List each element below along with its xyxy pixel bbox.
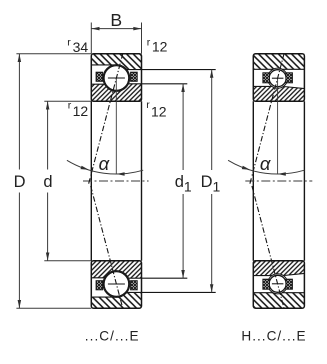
svg-text:12: 12 bbox=[152, 39, 168, 55]
right bearing inner ring top (hatched) bbox=[253, 86, 304, 101]
alpha angle arc left with arrows bbox=[67, 160, 143, 174]
alpha angle arc right with arrows bbox=[228, 160, 304, 174]
right cage top-right bbox=[286, 73, 293, 83]
right bearing inner ring bottom (hatched) bbox=[253, 261, 304, 276]
cage bottom-right bbox=[131, 281, 138, 290]
left top outer-ring bore lines bbox=[91, 65, 215, 70]
left bearing axis centerline bbox=[83, 180, 149, 182]
d1 dimension line bbox=[182, 84, 184, 278]
cage top-right bbox=[131, 72, 138, 81]
left top inner-ring shoulder lines bbox=[91, 83, 187, 85]
d dimension line bbox=[47, 101, 49, 260]
svg-text:...C/...E: ...C/...E bbox=[85, 328, 140, 343]
svg-text:r: r bbox=[147, 36, 151, 48]
svg-text:α: α bbox=[260, 153, 271, 174]
d extension lines bbox=[44, 101, 91, 260]
left top raceway groove bbox=[103, 65, 130, 92]
D dimension line bbox=[18, 54, 20, 308]
contact angle line right top bbox=[252, 53, 284, 176]
left bottom raceway groove bbox=[103, 271, 130, 298]
left bearing bore / OD silhouette walls bbox=[91, 101, 141, 260]
right bottom inner-ring shoulder lines bbox=[253, 273, 304, 275]
contact angle line left top bbox=[91, 53, 123, 176]
right bearing outer ring bottom (hatched) bbox=[253, 293, 304, 309]
right bearing bore / OD silhouette walls bbox=[253, 101, 304, 260]
ball crosshair bottom right bbox=[272, 283, 284, 285]
ball crosshair bottom left bbox=[108, 283, 125, 285]
ball top right bearing bbox=[269, 70, 286, 87]
B dimension line with arrows bbox=[91, 28, 141, 30]
ball crosshair top right bbox=[272, 77, 284, 79]
contact angle line right bottom bbox=[252, 186, 284, 309]
right bearing bottom block outline bbox=[253, 261, 304, 309]
svg-text:12: 12 bbox=[151, 103, 167, 119]
svg-text:B: B bbox=[110, 10, 122, 30]
left bottom inner-ring shoulder lines bbox=[91, 277, 187, 279]
ball top left bearing bbox=[104, 66, 129, 91]
contact line axis tick right bbox=[250, 178, 251, 183]
svg-text:r: r bbox=[146, 99, 150, 111]
right bottom raceway groove bbox=[268, 274, 288, 294]
contact line axis tick left bbox=[89, 178, 90, 183]
D1 dimension line bbox=[211, 70, 213, 293]
left bottom outer-ring bore lines bbox=[91, 292, 215, 297]
svg-text:12: 12 bbox=[73, 103, 89, 119]
ball bottom left bearing bbox=[104, 272, 129, 297]
cage bottom-left bbox=[96, 281, 103, 290]
svg-text:D: D bbox=[14, 173, 26, 191]
right bottom outer-ring bore line bbox=[253, 292, 304, 294]
contact angle line left bottom bbox=[91, 186, 123, 309]
left bearing inner ring bottom (hatched) bbox=[91, 261, 141, 279]
svg-text:d: d bbox=[43, 173, 52, 191]
right cage bottom-right bbox=[286, 279, 293, 289]
left bearing outer ring bottom (hatched) bbox=[91, 292, 141, 308]
left bearing top block outline bbox=[91, 54, 141, 102]
left bearing inner ring top (hatched) bbox=[91, 84, 141, 102]
right bearing top block outline bbox=[253, 54, 304, 102]
svg-text:H...C/...E: H...C/...E bbox=[241, 328, 306, 343]
right bearing outer ring top (hatched) bbox=[253, 54, 304, 70]
right cage top-left bbox=[263, 73, 270, 83]
right top outer-ring bore line bbox=[253, 68, 304, 70]
svg-text:34: 34 bbox=[73, 39, 89, 55]
svg-text:r: r bbox=[68, 100, 72, 112]
D extension lines bbox=[16, 54, 91, 308]
right bearing axis centerline bbox=[245, 180, 312, 182]
ball bottom right bearing bbox=[269, 275, 286, 292]
radial reference line left bbox=[115, 79, 117, 174]
ball crosshair top left bbox=[108, 77, 125, 79]
svg-text:α: α bbox=[99, 153, 110, 174]
right top raceway groove bbox=[268, 68, 288, 88]
right cage bottom-left bbox=[263, 279, 270, 289]
radial reference line right bbox=[277, 79, 279, 174]
right top inner-ring shoulder lines bbox=[253, 86, 304, 88]
left bearing outer ring top (hatched) bbox=[91, 54, 141, 70]
cage top-left bbox=[96, 72, 103, 81]
B dimension extension lines bbox=[91, 23, 141, 54]
left bearing bottom block outline bbox=[91, 261, 141, 309]
svg-text:r: r bbox=[67, 36, 71, 48]
